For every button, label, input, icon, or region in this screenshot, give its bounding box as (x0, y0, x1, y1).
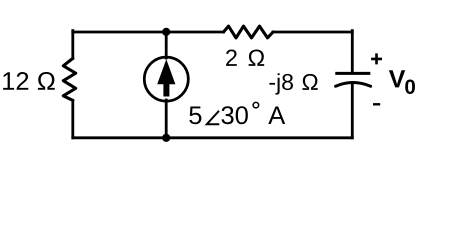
label source angle value "30" (221, 106, 233, 124)
label -j8-ohm value "-j8" (269, 83, 275, 85)
capacitor -j8 top plate (335, 72, 370, 75)
wire right vertical upper (351, 31, 354, 73)
node junction dot top (162, 28, 170, 36)
label source degree circle (253, 102, 259, 108)
wire left vertical lower (71, 100, 74, 137)
polarity plus sign (371, 53, 382, 64)
label 2-ohm value "2" (226, 49, 237, 65)
wire middle branch top stub (165, 32, 168, 58)
node junction dot bottom (162, 134, 170, 142)
label 2-ohm unit omega (249, 49, 265, 65)
polarity minus sign (373, 103, 380, 105)
label 12-ohm unit omega (38, 72, 55, 90)
label V0 subscript "0" (405, 79, 415, 94)
current source arrow tail (163, 84, 169, 97)
label -j8-ohm unit omega (302, 74, 317, 90)
label 12-ohm value "12" (3, 72, 14, 90)
wire bottom segment (73, 136, 353, 139)
label source magnitude "5" (189, 106, 201, 124)
label V0 "V" (389, 70, 405, 87)
current source circle (144, 57, 188, 101)
resistor 2-ohm zigzag (224, 26, 274, 38)
wire left vertical upper (71, 31, 74, 59)
label source unit "A" (268, 106, 285, 124)
resistor 12-ohm zigzag (63, 58, 75, 100)
wire top-left segment (73, 31, 224, 34)
wire right vertical lower (351, 83, 354, 138)
wire middle branch bottom stub (165, 100, 168, 138)
wire top-right segment (273, 31, 352, 34)
label source angle symbol (207, 111, 220, 124)
capacitor -j8 curved plate (336, 83, 371, 87)
current source arrow head (157, 59, 175, 84)
